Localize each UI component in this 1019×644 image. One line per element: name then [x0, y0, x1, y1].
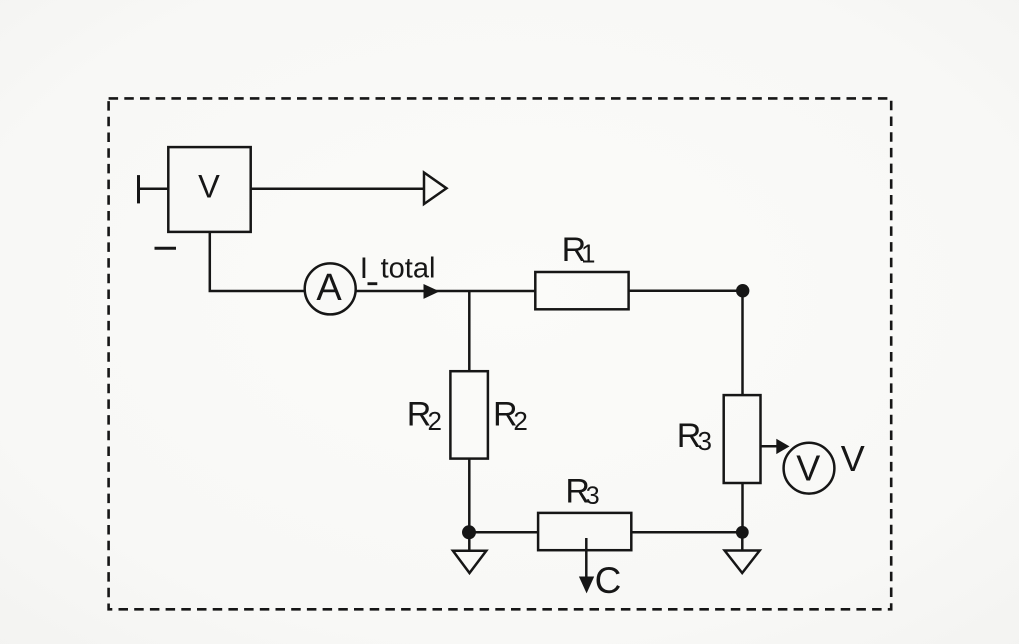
svg-text:V: V	[198, 169, 220, 205]
svg-text:V: V	[841, 438, 865, 479]
svg-text:2: 2	[513, 406, 527, 436]
svg-text:V: V	[796, 448, 820, 489]
svg-text:2: 2	[428, 406, 442, 436]
svg-text:3: 3	[698, 426, 712, 456]
svg-text:1: 1	[581, 238, 595, 268]
svg-text:total: total	[381, 253, 436, 285]
svg-text:3: 3	[586, 482, 600, 510]
svg-text:I: I	[360, 252, 368, 285]
svg-text:A: A	[316, 267, 342, 309]
svg-text:C: C	[595, 560, 622, 601]
